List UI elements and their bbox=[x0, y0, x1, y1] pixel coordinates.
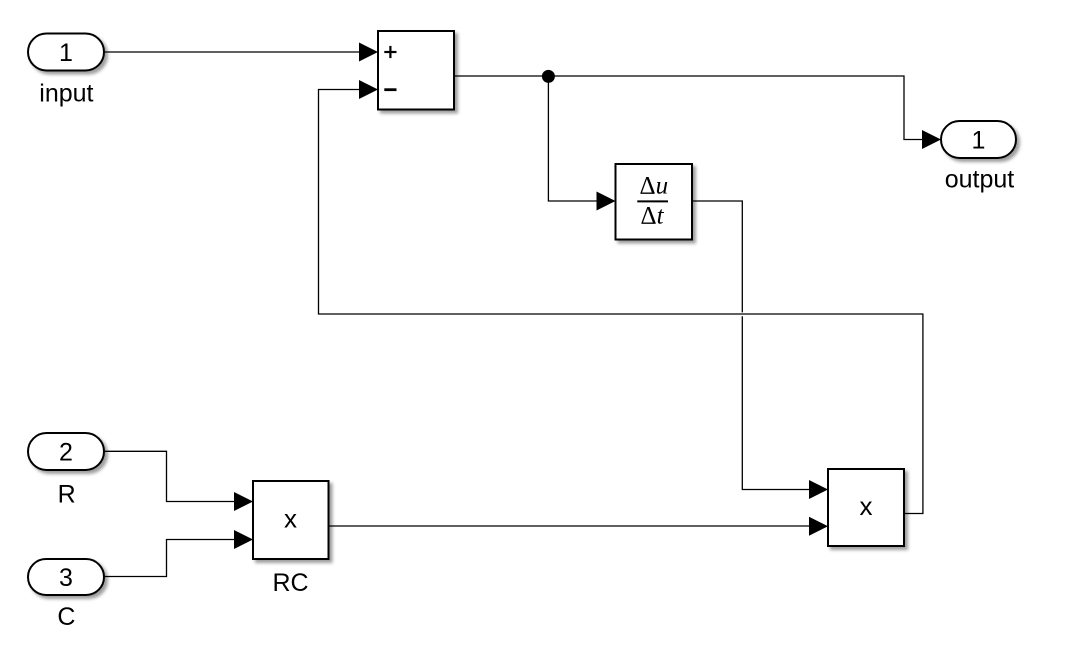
svg-text:RC: RC bbox=[272, 569, 308, 597]
svg-text:2: 2 bbox=[59, 438, 73, 466]
svg-text:1: 1 bbox=[972, 126, 986, 154]
svg-text:C: C bbox=[57, 603, 75, 631]
svg-text:1: 1 bbox=[59, 39, 73, 67]
svg-text:Δu: Δu bbox=[640, 172, 669, 199]
svg-text:output: output bbox=[945, 166, 1015, 194]
svg-text:x: x bbox=[860, 491, 873, 521]
svg-text:input: input bbox=[39, 80, 93, 108]
svg-text:3: 3 bbox=[59, 564, 73, 592]
svg-text:Δt: Δt bbox=[640, 203, 664, 230]
svg-text:R: R bbox=[58, 481, 76, 509]
svg-text:x: x bbox=[284, 503, 297, 533]
